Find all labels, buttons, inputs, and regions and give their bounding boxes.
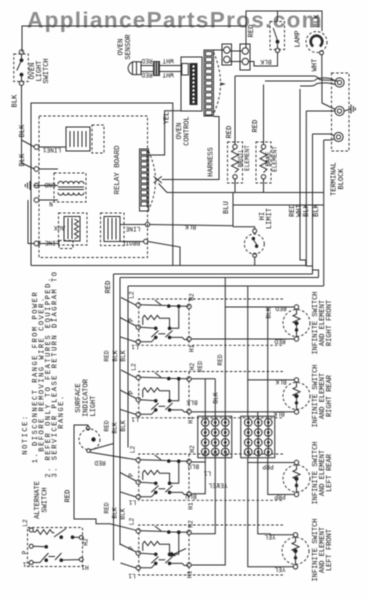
wire grid2 col2 to element C bottom [268,458,295,500]
wire element B top [248,286,295,385]
svg-text:RELAY BOARD: RELAY BOARD [114,145,122,195]
svg-text:RIGHT REAR: RIGHT REAR [326,374,334,417]
svg-text:H2: H2 [189,445,196,453]
wire grid feed 3 [217,307,225,416]
svg-text:BLK: BLK [19,124,27,137]
svg-text:LINE 2: LINE 2 [37,239,60,246]
relay board plug connector [140,149,156,211]
label INFINITE SWITCH LEFT REAR [312,441,334,504]
labels grid1 bottom [204,470,228,489]
switch C internals [136,455,191,499]
line filter box [66,125,104,153]
notice text block [22,270,66,477]
svg-text:WHT: WHT [312,59,320,72]
svg-text:RED: RED [226,126,234,139]
oven lamp [295,31,328,55]
label OVEN SENSOR [118,34,134,60]
transformer T1 [54,173,86,202]
svg-text:BLK: BLK [112,507,119,518]
svg-text:BLU: BLU [223,201,231,214]
wire grid1 col1 to H1-C [191,458,205,494]
svg-text:RED: RED [141,71,152,78]
connector block pair A [214,44,232,65]
wire RED from block B to top bus [248,25,256,38]
plug grid left [198,416,232,458]
wire grid2 col1 to element C top and D bottom [248,458,295,573]
svg-text:LEFT FRONT: LEFT FRONT [326,529,334,571]
svg-text:LAMP: LAMP [295,31,303,48]
infinite switch left front (block D) [139,525,283,575]
svg-text:RED: RED [217,354,224,365]
terminal L1 lug [335,78,344,87]
svg-text:L2: L2 [22,519,29,527]
svg-text:H2: H2 [189,363,196,371]
element right front [283,305,310,341]
svg-text:H1: H1 [188,502,195,510]
relay board terminal 2 [34,167,58,172]
svg-text:RED: RED [104,502,111,513]
svg-text:SENSOR: SENSOR [125,34,133,60]
sensor wires WHT [160,57,182,78]
svg-text:H2: H2 [188,520,195,528]
svg-text:L1: L1 [129,499,137,506]
wire grid1 col2 to H2-D [191,458,215,534]
terminal block dashed outline [332,73,350,151]
wire WHT long run [306,110,335,112]
svg-text:PRP: PRP [274,493,285,500]
svg-text:LINE1: LINE1 [42,146,61,153]
label OVEN LIGHT SWITCH [29,58,51,83]
relay board dashed outline [39,116,148,258]
svg-text:BLK: BLK [314,14,322,27]
label INFINITE SWITCH LEFT FRONT [312,518,334,581]
svg-text:RED: RED [65,490,73,503]
wire BLK left riser [119,278,121,546]
svg-text:3. SERVICER PLEASE RETURN DIAG: 3. SERVICER PLEASE RETURN DIAGRAM TO [52,270,60,477]
oven lamp door switch [270,11,285,53]
svg-text:BLK: BLK [112,422,119,433]
svg-text:BLK: BLK [260,58,271,65]
wire BLK2 long run [323,140,325,286]
switch B feed diagonals [120,370,136,415]
svg-text:RIGHT FRONT: RIGHT FRONT [326,300,334,346]
svg-text:BLK: BLK [213,392,220,403]
bus wire 4 [128,285,324,287]
wires into terminal L2 [313,134,335,140]
surface indicator light [74,425,136,466]
svg-text:L1: L1 [128,572,136,579]
element left front [282,533,309,569]
svg-text:RED: RED [248,25,256,38]
switch D feed diagonals [120,544,136,568]
wire BLK1 long run [313,134,319,278]
svg-text:P: P [128,473,135,477]
terminal LINE 2 [34,239,73,248]
svg-text:RED: RED [275,305,286,312]
wire grid feed 1 [191,361,215,417]
svg-text:BLU: BLU [188,463,199,470]
switch A labels [128,291,196,352]
svg-text:BLK: BLK [185,223,196,230]
wire RED bake feed [252,85,264,145]
chassis box around relay board [31,103,173,266]
wire top feed L1 to lamp circuit [22,11,322,52]
svg-text:L2: L2 [131,363,138,371]
label BROIL ELEMENT [238,145,252,171]
svg-text:N: N [49,200,53,207]
alternate switch terminals [29,528,83,565]
svg-text:L2: L2 [129,518,136,526]
svg-text:LIGHT: LIGHT [90,395,98,416]
wire BLU hi-limit feed [223,193,233,227]
svg-text:WHT: WHT [162,71,173,78]
bus wire 3 [120,277,319,279]
label HI LIMIT [259,208,274,229]
svg-text:BLK: BLK [275,378,286,385]
plug grid right [241,416,275,458]
svg-text:RED: RED [104,350,111,361]
svg-text:LIMIT: LIMIT [266,208,274,229]
svg-text:YEL: YEL [264,533,275,540]
wire RED long run [300,89,306,266]
sensor connector plug [153,61,160,76]
svg-text:BLK: BLK [112,350,119,361]
wire diagonal to relay board LINE1 [22,140,35,147]
oven control box [181,57,202,111]
label OVEN CONTROL [176,116,192,145]
svg-text:BLK: BLK [186,399,197,406]
svg-text:BLK: BLK [12,94,20,107]
wire RED broil feed [226,76,235,145]
svg-text:L1: L1 [23,561,31,568]
alternate switch internals [33,529,79,563]
svg-text:L2: L2 [130,446,137,454]
control plug connector (square strip P1) [204,50,224,116]
control board edge connector (dark strip) [190,63,198,105]
switch A feed diagonals [120,298,136,343]
relay board terminal LINE1 [34,145,66,153]
element left rear [283,460,310,496]
wire BLK left riser 2 [127,286,129,448]
terminal L2 lug [334,132,343,141]
wire grid1 col3 to H1-D [191,458,225,565]
hi-limit thermostat [233,227,264,266]
wire element B bottom to H1 [191,410,294,417]
switch A internals [136,300,191,344]
wire grid feed 2 [213,379,220,417]
svg-text:P: P [128,390,135,394]
switch C feed diagonals [120,473,136,498]
svg-text:BLOCK: BLOCK [338,168,346,190]
relay BROIL [120,239,180,266]
svg-text:BLK: BLK [120,508,127,519]
alternate switch labels [22,519,90,570]
wire BLK from oven light switch down [12,85,22,163]
bus wire 2 [114,273,313,275]
svg-text:BROIL: BROIL [121,239,140,246]
alternate switch box [28,528,83,567]
oven light switch [14,50,28,86]
label TERMINAL BLOCK [331,162,347,196]
svg-text:RED: RED [197,361,204,372]
switch D internals [136,526,191,570]
infinite switch right rear (block B) [139,372,283,418]
label BAKE ELEMENT [265,146,279,172]
svg-text:SWITCH: SWITCH [43,58,51,83]
wire pair left below N [28,200,34,244]
svg-text:P: P [22,550,29,554]
wires relay plug to bus [154,117,219,193]
svg-text:ELEMENT: ELEMENT [272,146,279,172]
ground at terminal N [344,105,355,114]
svg-text:P: P [128,546,135,550]
svg-text:HARNESS: HARNESS [208,147,216,176]
bus wire 1 (chassis bottom) [31,265,306,267]
svg-text:H1: H1 [188,416,195,424]
oven bus wire [167,192,324,194]
wire RED left riser [113,274,115,561]
wire RED alternate feed [65,425,137,531]
switch B internals [136,373,191,417]
svg-text:LEFT REAR: LEFT REAR [326,453,334,492]
element right rear [283,378,310,414]
wire grid2 feed 2 [257,412,259,416]
svg-text:H1: H1 [187,571,194,579]
label INFINITE SWITCH RIGHT FRONT [312,291,334,354]
svg-text:RED: RED [104,420,111,431]
relay LINE [101,213,234,246]
svg-text:H1: H1 [81,564,89,571]
connector block pair B [230,44,250,70]
svg-text:RED: RED [252,120,260,133]
svg-text:L2: L2 [129,291,136,299]
wire hi-limit right tap [233,204,324,206]
svg-text:SWITCH: SWITCH [42,487,50,512]
wire BLK block B to lamp switch [249,53,278,67]
wire grid2 col3 to element D top [258,458,294,540]
wire element A bottom to H1 [191,338,294,345]
wires into terminal L1 (strain loops) [235,76,338,86]
svg-text:YEL: YEL [163,112,171,125]
switch D labels [128,493,197,580]
oven sensor probe [128,62,141,75]
wire element A top [225,278,294,312]
svg-text:RED: RED [105,281,113,294]
svg-text:H2: H2 [83,538,90,546]
svg-text:L1: L1 [131,416,139,423]
switch C labels [128,445,199,510]
wire grid2 feed 1 [247,380,249,416]
svg-text:RED: RED [94,459,105,466]
broil element [228,142,243,193]
svg-text:BLK: BLK [19,153,27,166]
wire diagonal to relay board terminal 2 [22,163,35,169]
relay AUX [54,213,87,245]
svg-text:WHT: WHT [162,57,173,64]
harness run [208,147,216,176]
svg-text:YEL: YEL [216,482,227,489]
svg-text:ELEMENT: ELEMENT [244,145,251,171]
svg-text:L1: L1 [204,470,212,477]
terminal N lug [335,106,344,115]
svg-text:BLK: BLK [120,420,127,431]
infinite switch left rear (block C) [139,454,283,500]
bake element [256,142,271,193]
label SURFACE INDICATOR LIGHT [75,378,98,417]
svg-text:RANGE.: RANGE. [58,394,66,429]
wire grid2 feed 3 [266,307,273,416]
switch B labels [128,363,198,424]
svg-text:RED: RED [141,57,152,64]
svg-text:CONTROL: CONTROL [184,116,192,145]
label ALTERNATE SWITCH [34,481,50,519]
svg-text:H2: H2 [189,293,196,301]
svg-text:BLK: BLK [266,307,273,318]
svg-text:P: P [128,318,135,322]
svg-text:H1: H1 [189,345,196,353]
annotation arrow to alternate switch [169,549,186,557]
svg-text:AUX: AUX [54,224,65,231]
label INFINITE SWITCH RIGHT REAR [312,364,334,427]
ground GND [25,181,58,190]
svg-text:RED: RED [274,338,285,345]
svg-text:NOTICE:: NOTICE: [22,414,30,454]
relay board terminal N [34,198,58,207]
svg-text:YEL: YEL [274,566,285,573]
svg-text:L1: L1 [131,343,139,350]
infinite switch right front (block A) [139,299,283,345]
svg-text:BLK: BLK [120,350,127,361]
sensor wires RED [141,57,153,78]
wire YEL from chassis corner down to relay connector [149,111,182,155]
svg-text:LINE: LINE [125,225,140,232]
wire WHT lamp to terminal 2 [312,55,336,110]
sensor plug on control [182,64,189,76]
